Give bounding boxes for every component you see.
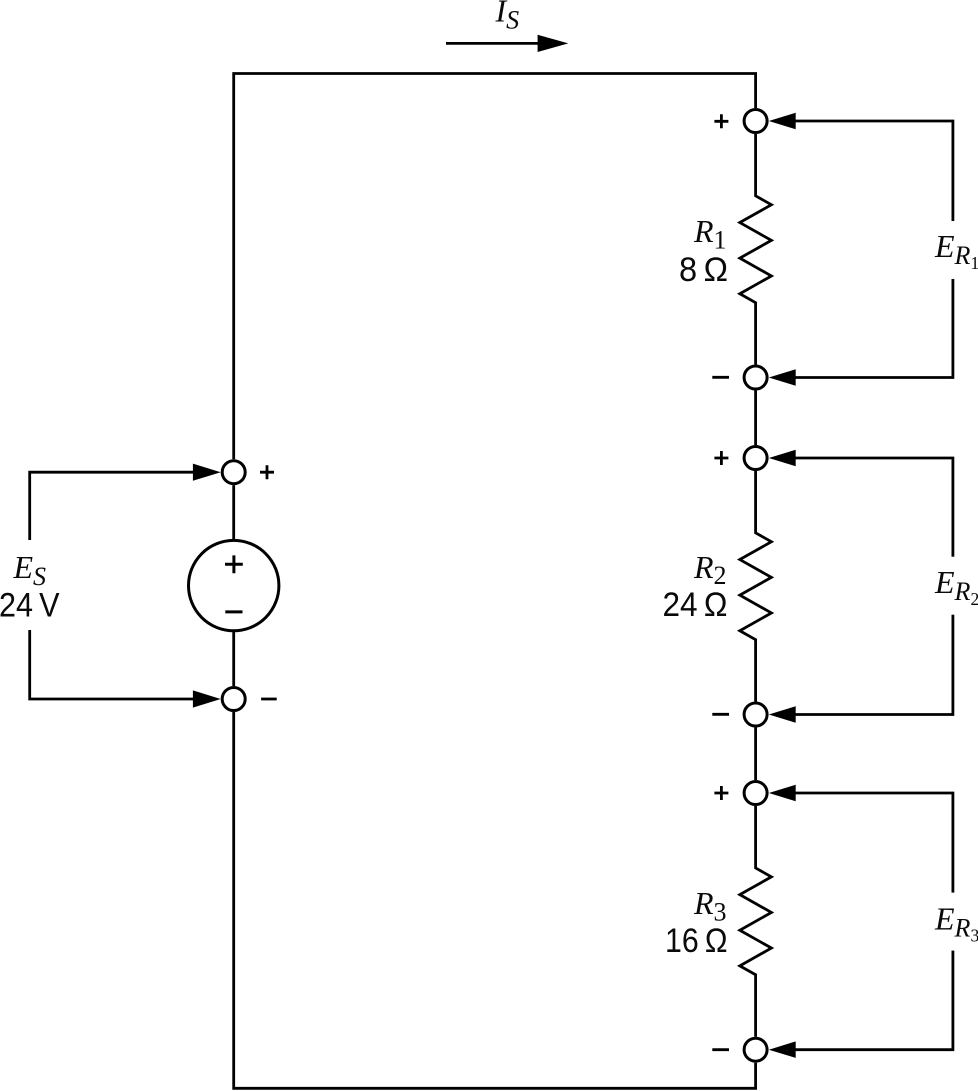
resistor R3 (with leads) [740, 806, 772, 1037]
voltage source ES circle [189, 540, 279, 630]
wire: node N2 to node N3 [754, 391, 757, 446]
plus label at left node [260, 465, 274, 479]
wire: node N4 to node N5 [754, 728, 757, 781]
node N1 (R1 top) [744, 110, 767, 133]
arrowhead to N1 [769, 113, 796, 130]
minus at N6 [712, 1048, 729, 1051]
node left plus terminal [222, 461, 245, 484]
arrowhead to N5 [769, 785, 796, 802]
node N6 (R3 bottom) [744, 1038, 767, 1061]
svg-text:16 Ω: 16 Ω [665, 922, 728, 960]
resistor R2 (with leads) [740, 471, 772, 702]
ER3 bracket wire [790, 793, 953, 1050]
label background ES [14, 540, 46, 630]
minus label at left node [261, 698, 277, 701]
arrowhead to N3 [769, 450, 796, 467]
plus at N1 [714, 114, 728, 128]
plus at N5 [714, 786, 728, 800]
arrowhead to left minus node [193, 690, 221, 707]
IS current arrow [446, 42, 540, 45]
minus at N2 [712, 376, 729, 379]
ER2 bracket wire [790, 458, 953, 715]
svg-text:8 Ω: 8 Ω [679, 251, 728, 289]
node N5 (R3 top) [744, 782, 767, 805]
wire: source bottom to node NL- [232, 630, 235, 686]
plus at N3 [714, 451, 728, 465]
arrowhead to N6 [769, 1041, 796, 1058]
arrowhead to left plus node [193, 464, 221, 481]
svg-text:24 V: 24 V [0, 587, 60, 625]
svg-text:24 Ω: 24 Ω [663, 586, 728, 624]
wire: left vertical bottom + bottom wire + right bottom stub [234, 712, 756, 1088]
resistor R1 (with leads) [740, 134, 772, 365]
label background ER2 [940, 557, 966, 615]
arrowhead to N2 [769, 369, 796, 386]
node N2 (R1 bottom) [744, 366, 767, 389]
ER1 bracket wire [790, 121, 953, 378]
node N4 (R2 bottom) [744, 703, 767, 726]
arrowhead to N4 [769, 706, 796, 723]
ES bracket wire [30, 472, 200, 699]
source minus sign [225, 610, 242, 613]
label background ER3 [940, 893, 966, 951]
node N3 (R2 top) [744, 447, 767, 470]
minus at N4 [712, 713, 729, 716]
source plus sign [225, 555, 243, 573]
label background ER1 [940, 221, 966, 279]
wire: node NL+ to source top [232, 485, 235, 541]
wire: left vertical + top wire + right top stub [234, 74, 756, 460]
node left minus terminal [222, 688, 245, 711]
